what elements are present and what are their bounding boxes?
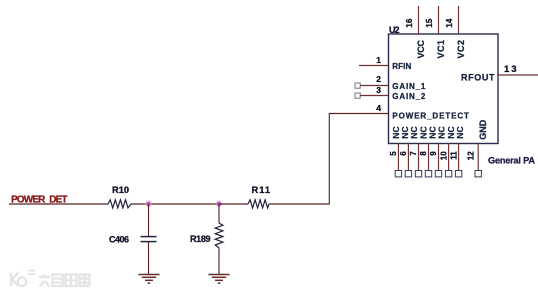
pin 3 wire (GAIN_2) [360,95,388,97]
pin 2 no-connect square [355,83,360,88]
svg-text:4: 4 [376,103,381,113]
NC pin 11 [449,144,462,177]
pin names NC row (8 labels) [391,126,465,138]
NC pin 6 [399,144,412,177]
pin 13 wire (RFOUT) [498,74,538,76]
resistor R10 [108,185,131,208]
ground below C406 [138,275,159,284]
svg-text:8: 8 [419,151,428,156]
pin 16 wire (VCC) [418,6,420,34]
svg-text:2: 2 [376,74,381,84]
svg-text:1: 1 [376,55,381,65]
junction B [215,200,222,207]
NC pin 5 [389,144,402,177]
capacitor C406 [109,235,157,245]
svg-text:14: 14 [445,18,454,27]
NC pin 7 [409,144,421,177]
svg-text:NC: NC [455,126,465,138]
pin 15 wire (VC1) [438,6,440,34]
svg-text:16: 16 [405,18,414,27]
svg-text:R10: R10 [112,185,129,195]
wire junction B down to R189 [218,204,220,223]
svg-text:GAIN_2: GAIN_2 [392,92,426,101]
svg-text:7: 7 [409,151,418,156]
svg-text:6: 6 [399,151,408,156]
watermark text blocks [39,274,90,287]
svg-text:GAIN_1: GAIN_1 [392,82,426,91]
pin 3 no-connect square [355,93,360,98]
svg-text:VC2: VC2 [456,40,466,59]
svg-text:VCC: VCC [416,40,426,59]
wire main horizontal from POWER_DET to R10 [9,203,108,205]
wire C406 to ground [148,242,150,274]
pin 14 wire (VC2) [458,6,460,34]
op-amp-IC U2 body [389,34,499,144]
ground below R189 [208,275,229,284]
wire R189 to ground [218,248,220,274]
watermark logo [11,271,35,287]
NC pin 9 [429,144,441,177]
svg-text:9: 9 [429,151,438,156]
pin 12 GND [467,119,489,177]
svg-text:5: 5 [389,151,398,156]
svg-text:10: 10 [439,151,448,160]
svg-text:POWER_DETECT: POWER_DETECT [392,112,469,121]
junction A [145,200,152,207]
resistor R189 [190,223,223,248]
pin 1 wire (RFIN) [359,65,389,67]
svg-text:R189: R189 [190,234,211,244]
wire junction B to R11 [219,203,248,205]
svg-text:R11: R11 [252,185,271,195]
svg-text:15: 15 [425,18,434,27]
svg-text:RFOUT: RFOUT [461,72,495,82]
resistor R11 [248,185,270,208]
pin 2 wire (GAIN_1) [360,85,388,87]
svg-text:11: 11 [449,151,458,160]
svg-text:3: 3 [376,85,381,95]
svg-text:13: 13 [504,64,517,75]
svg-text:GND: GND [478,119,488,140]
wire R11 right then up to pin 4 [269,114,389,205]
svg-text:VC1: VC1 [436,40,446,59]
svg-text:RFIN: RFIN [392,62,411,71]
svg-text:General PA: General PA [488,155,535,165]
svg-text:12: 12 [467,151,476,160]
svg-text:C406: C406 [109,235,129,245]
wire junction A down to C406 [148,204,150,237]
svg-text:U2: U2 [389,25,400,35]
wire R10 to junction A [131,203,219,205]
NC pin 8 [419,144,431,177]
NC pin 10 [439,144,452,177]
